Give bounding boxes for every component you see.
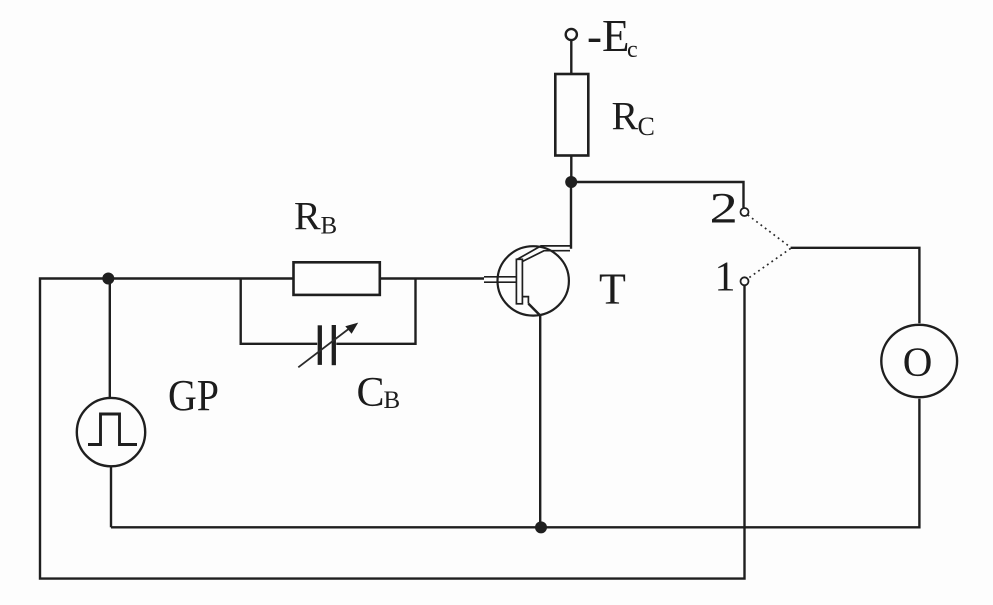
svg-text:C: C xyxy=(357,370,385,416)
svg-text:B: B xyxy=(384,387,401,414)
svg-text:GP: GP xyxy=(168,371,219,420)
svg-text:R: R xyxy=(294,193,321,238)
svg-text:B: B xyxy=(321,212,338,239)
svg-text:O: O xyxy=(903,338,933,384)
svg-text:-E: -E xyxy=(587,11,629,61)
svg-text:1: 1 xyxy=(715,254,736,300)
svg-text:2: 2 xyxy=(710,184,738,232)
svg-text:c: c xyxy=(627,37,638,63)
svg-text:C: C xyxy=(638,112,655,141)
svg-text:R: R xyxy=(612,94,639,139)
svg-text:T: T xyxy=(599,264,626,313)
